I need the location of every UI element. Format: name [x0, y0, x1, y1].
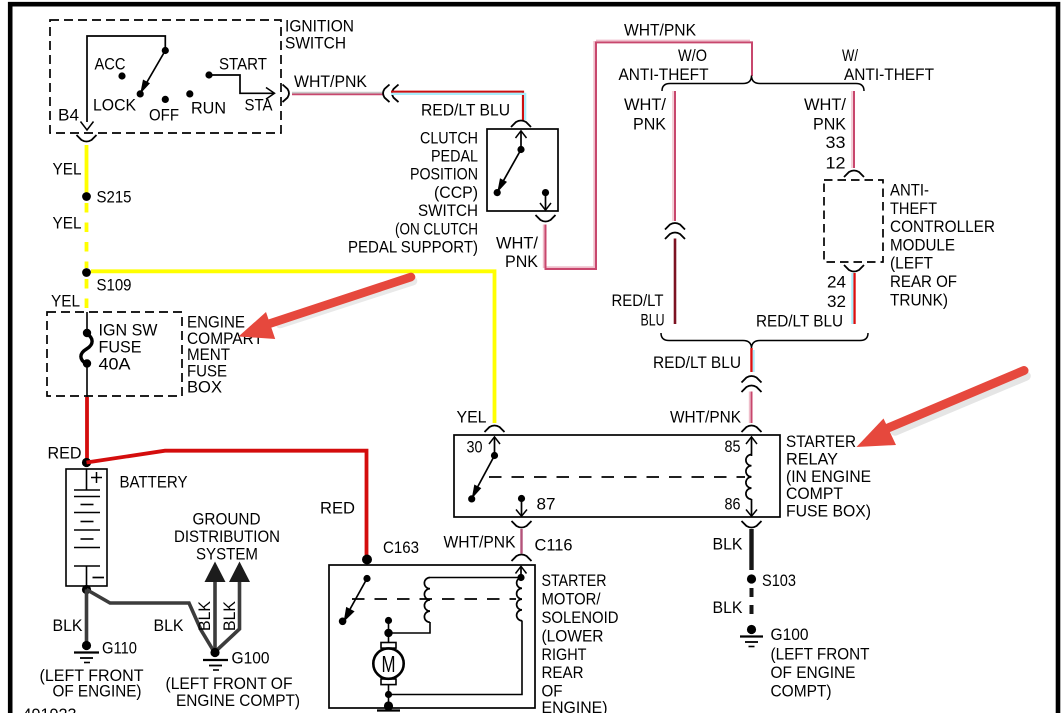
ground G110 — [40, 639, 144, 701]
svg-text:BLK: BLK — [220, 600, 239, 631]
svg-text:491923: 491923 — [23, 705, 77, 713]
svg-text:86: 86 — [725, 495, 741, 514]
svg-text:RED: RED — [320, 499, 355, 518]
battery — [66, 469, 188, 586]
svg-text:WHT/PNK: WHT/PNK — [624, 21, 697, 40]
svg-text:BLU: BLU — [641, 311, 665, 330]
svg-text:87: 87 — [537, 495, 556, 514]
merge brace — [661, 333, 868, 349]
svg-text:BLK: BLK — [154, 616, 185, 635]
solenoid switch — [339, 575, 371, 625]
wire WHT/PNK w/-anti-theft branch — [804, 91, 854, 168]
svg-text:STARTER: STARTER — [542, 571, 607, 590]
ignition switch rotor lever — [140, 47, 169, 94]
solenoid internal dashed link — [352, 598, 516, 600]
contact dot ACC — [95, 55, 126, 80]
connector half above anti-theft module — [844, 171, 864, 178]
contact dot OFF — [149, 96, 179, 125]
svg-text:BLK: BLK — [713, 598, 744, 617]
svg-text:SYSTEM: SYSTEM — [196, 545, 258, 564]
relay pin 85 and coil — [725, 437, 758, 500]
svg-text:YEL: YEL — [51, 292, 80, 311]
anti-theft controller module box — [824, 180, 995, 309]
contact dot LOCK — [93, 90, 144, 114]
connector half above clutch switch — [511, 121, 531, 128]
svg-text:POSITION: POSITION — [410, 165, 478, 184]
svg-text:RED/LT BLU: RED/LT BLU — [653, 353, 741, 372]
wire BLK battery to G100 — [87, 590, 214, 651]
svg-text:YEL: YEL — [53, 214, 82, 233]
annotation red arrow 2 (starter relay) — [857, 371, 1027, 448]
fuse lead-in line — [86, 312, 88, 331]
junction dot motor ground — [384, 701, 393, 710]
svg-text:REAR OF: REAR OF — [890, 272, 957, 291]
svg-text:OF ENGINE: OF ENGINE — [771, 663, 856, 682]
svg-text:STA: STA — [245, 96, 274, 115]
wire BLK dashed S103 to G100 — [713, 588, 752, 622]
relay switch lever — [468, 456, 494, 503]
connector half below relay pin 87 — [512, 521, 532, 528]
svg-text:COMPT): COMPT) — [771, 682, 832, 701]
svg-text:M: M — [382, 651, 396, 677]
junction dot battery positive — [82, 458, 91, 467]
svg-text:FUSE BOX): FUSE BOX) — [786, 502, 871, 521]
svg-text:SWITCH: SWITCH — [285, 34, 346, 53]
clutch switch pin 2 with down arrow — [540, 189, 551, 210]
ground G100 (right) — [740, 625, 870, 701]
wire RED/LT BLU merged — [653, 348, 754, 372]
svg-text:G100: G100 — [232, 649, 270, 668]
svg-text:ENGINE): ENGINE) — [542, 698, 608, 713]
svg-text:OF ENGINE): OF ENGINE) — [53, 682, 142, 701]
svg-text:RELAY: RELAY — [786, 449, 838, 468]
svg-text:REAR: REAR — [542, 663, 584, 682]
svg-text:C116: C116 — [535, 536, 573, 555]
svg-text:CONTROLLER: CONTROLLER — [890, 217, 995, 236]
svg-text:RED: RED — [48, 444, 82, 463]
svg-text:START: START — [219, 55, 267, 74]
svg-text:YEL: YEL — [53, 160, 82, 179]
svg-text:24: 24 — [827, 273, 846, 292]
svg-text:SOLENOID: SOLENOID — [542, 608, 619, 627]
clutch switch lever — [494, 150, 521, 197]
split brace (wire options) — [662, 76, 864, 92]
junction dot battery negative — [82, 585, 91, 594]
svg-text:SWITCH: SWITCH — [418, 201, 478, 220]
solenoid pull-in coil — [389, 578, 521, 634]
svg-text:ANTI-THEFT: ANTI-THEFT — [619, 65, 709, 84]
svg-text:G110: G110 — [102, 639, 137, 658]
svg-text:RED/LT: RED/LT — [612, 291, 664, 310]
starter motor solenoid box — [329, 565, 619, 713]
svg-text:OFF: OFF — [149, 106, 179, 125]
wire WHT/PNK to relay pin 85 — [670, 392, 752, 427]
svg-text:STARTER: STARTER — [786, 432, 856, 451]
solenoid pin 87 entry arrow — [516, 566, 527, 581]
ground distribution arrow 1 — [195, 562, 226, 651]
svg-text:RUN: RUN — [191, 99, 226, 118]
engine compartment fuse box (dashed) — [47, 312, 263, 397]
splice S215 — [82, 188, 131, 207]
solenoid case ground — [377, 709, 400, 711]
relay pin 86 — [725, 495, 758, 517]
svg-text:BATTERY: BATTERY — [120, 473, 188, 492]
svg-text:TRUNK): TRUNK) — [890, 290, 948, 309]
fuse output line — [86, 364, 88, 399]
svg-text:PNK: PNK — [633, 115, 667, 134]
svg-text:THEFT: THEFT — [890, 199, 937, 218]
yellow wire ignition to S215 — [85, 145, 89, 193]
svg-text:40A: 40A — [99, 355, 132, 374]
contact dot START with output line — [205, 55, 274, 115]
ignition switch box — [50, 17, 354, 134]
yellow dashed wire S215 to S109 — [85, 203, 89, 268]
svg-text:33: 33 — [826, 133, 846, 152]
wire WHT/PNK w/o-anti-theft branch — [624, 91, 675, 221]
svg-text:32: 32 — [827, 292, 846, 311]
ignition switch internal feed line B4 — [81, 36, 166, 130]
svg-text:(LOWER: (LOWER — [542, 627, 604, 646]
svg-text:CLUTCH: CLUTCH — [420, 128, 478, 147]
connector half above relay pin85 — [742, 426, 762, 433]
svg-text:B4: B4 — [58, 106, 79, 125]
splice S109 — [82, 268, 131, 294]
wire RED/LT BLU w/o branch lower — [612, 239, 676, 330]
junction dot C163 — [362, 555, 372, 565]
svg-text:(CCP): (CCP) — [434, 183, 478, 202]
clutch switch pin 1 arrow — [516, 131, 527, 153]
ground distribution arrow 2 — [217, 562, 251, 651]
svg-text:(IN ENGINE: (IN ENGINE — [786, 467, 871, 486]
svg-text:PEDAL SUPPORT): PEDAL SUPPORT) — [348, 238, 478, 257]
wire WHT/PNK relay87 to C116 — [444, 529, 522, 554]
connector half below clutch switch — [536, 215, 556, 222]
svg-text:W/: W/ — [842, 46, 858, 65]
svg-text:WHT/: WHT/ — [496, 234, 538, 253]
svg-text:(ON CLUTCH: (ON CLUTCH — [395, 219, 478, 238]
annotation red arrow 1 (fuse box) — [239, 277, 414, 339]
wire RED battery to C163 — [87, 451, 367, 555]
svg-text:S109: S109 — [97, 276, 132, 295]
connector half at ignition STA output — [283, 85, 289, 103]
svg-text:W/O: W/O — [678, 46, 707, 65]
svg-text:WHT/PNK: WHT/PNK — [294, 72, 368, 91]
svg-text:12: 12 — [826, 154, 846, 173]
label W/O ANTI-THEFT — [619, 46, 709, 84]
wire RED/LT BLU to clutch switch — [391, 92, 525, 120]
label GROUND DISTRIBUTION SYSTEM — [174, 510, 280, 564]
svg-text:RED/LT BLU: RED/LT BLU — [756, 312, 843, 331]
label W/ ANTI-THEFT — [842, 46, 934, 84]
svg-text:S215: S215 — [97, 188, 132, 207]
svg-text:G100: G100 — [771, 625, 809, 644]
wire BLK battery to G110 — [53, 590, 87, 645]
svg-text:(LEFT FRONT: (LEFT FRONT — [771, 645, 870, 664]
svg-text:YEL: YEL — [457, 408, 487, 427]
yellow wire S109 to starter relay pin30 — [91, 271, 495, 423]
relay pin 87 — [516, 495, 556, 517]
svg-text:WHT/: WHT/ — [624, 95, 666, 114]
starter motor M — [373, 643, 403, 707]
svg-text:DISTRIBUTION: DISTRIBUTION — [174, 527, 280, 546]
wire RED/LT BLU from module — [756, 273, 855, 331]
inline connector on w/o branch — [665, 223, 685, 239]
relay internal dashed link — [489, 476, 745, 478]
svg-text:ANTI-THEFT: ANTI-THEFT — [844, 65, 934, 84]
svg-text:MODULE: MODULE — [890, 235, 955, 254]
connector half below anti-theft module — [844, 265, 864, 272]
svg-text:RED/LT BLU: RED/LT BLU — [421, 101, 510, 120]
svg-text:ENGINE COMPT): ENGINE COMPT) — [176, 691, 300, 710]
yellow dashed wire S109 to fuse box — [85, 279, 89, 313]
svg-text:BLK: BLK — [195, 600, 214, 631]
svg-text:85: 85 — [725, 437, 741, 456]
connector half below ignition box — [77, 135, 97, 142]
svg-text:ANTI-: ANTI- — [890, 181, 929, 200]
svg-text:BOX: BOX — [187, 378, 222, 397]
solenoid contact dots — [384, 617, 392, 643]
svg-text:BLK: BLK — [713, 535, 744, 554]
svg-text:RIGHT: RIGHT — [542, 645, 587, 664]
svg-text:WHT/PNK: WHT/PNK — [670, 408, 742, 427]
ground G100 (left) — [166, 648, 301, 710]
clutch pedal position switch box — [348, 128, 558, 256]
inline connector on merged wire — [742, 376, 762, 392]
starter relay box — [454, 432, 871, 521]
svg-text:GROUND: GROUND — [193, 510, 261, 529]
connector C116 half above solenoid — [512, 536, 573, 562]
splice S103 — [747, 571, 796, 590]
inline connector (( — [383, 85, 398, 103]
svg-text:MOTOR/: MOTOR/ — [542, 590, 601, 609]
wire BLK relay86 to S103 — [713, 529, 752, 570]
svg-text:PNK: PNK — [813, 115, 847, 134]
solenoid hold coil — [389, 578, 522, 695]
svg-text:WHT/: WHT/ — [804, 95, 846, 114]
connector half above relay pin30 — [485, 426, 505, 433]
svg-text:LOCK: LOCK — [93, 96, 137, 115]
fuse IGN SW FUSE 40A — [81, 321, 158, 374]
wire WHT/PNK from clutch switch up to top rail — [496, 41, 596, 271]
relay pin 30 — [467, 437, 501, 459]
svg-text:PEDAL: PEDAL — [431, 147, 478, 166]
wire RED fuse to battery — [48, 397, 88, 463]
wire WHT/PNK ignition to inline connector — [292, 72, 383, 94]
svg-text:30: 30 — [467, 438, 483, 457]
svg-text:BLK: BLK — [53, 616, 84, 635]
contact dot RUN — [186, 90, 226, 117]
svg-text:S103: S103 — [762, 571, 796, 590]
svg-text:ACC: ACC — [95, 55, 126, 74]
svg-text:C163: C163 — [383, 538, 419, 557]
svg-text:COMPT: COMPT — [786, 484, 843, 503]
svg-text:WHT/PNK: WHT/PNK — [444, 533, 517, 552]
connector half below relay pin 86 — [742, 521, 762, 528]
svg-text:(LEFT: (LEFT — [890, 254, 933, 273]
svg-text:PNK: PNK — [505, 252, 539, 271]
wire WHT/PNK top rail to split brace — [596, 21, 752, 77]
